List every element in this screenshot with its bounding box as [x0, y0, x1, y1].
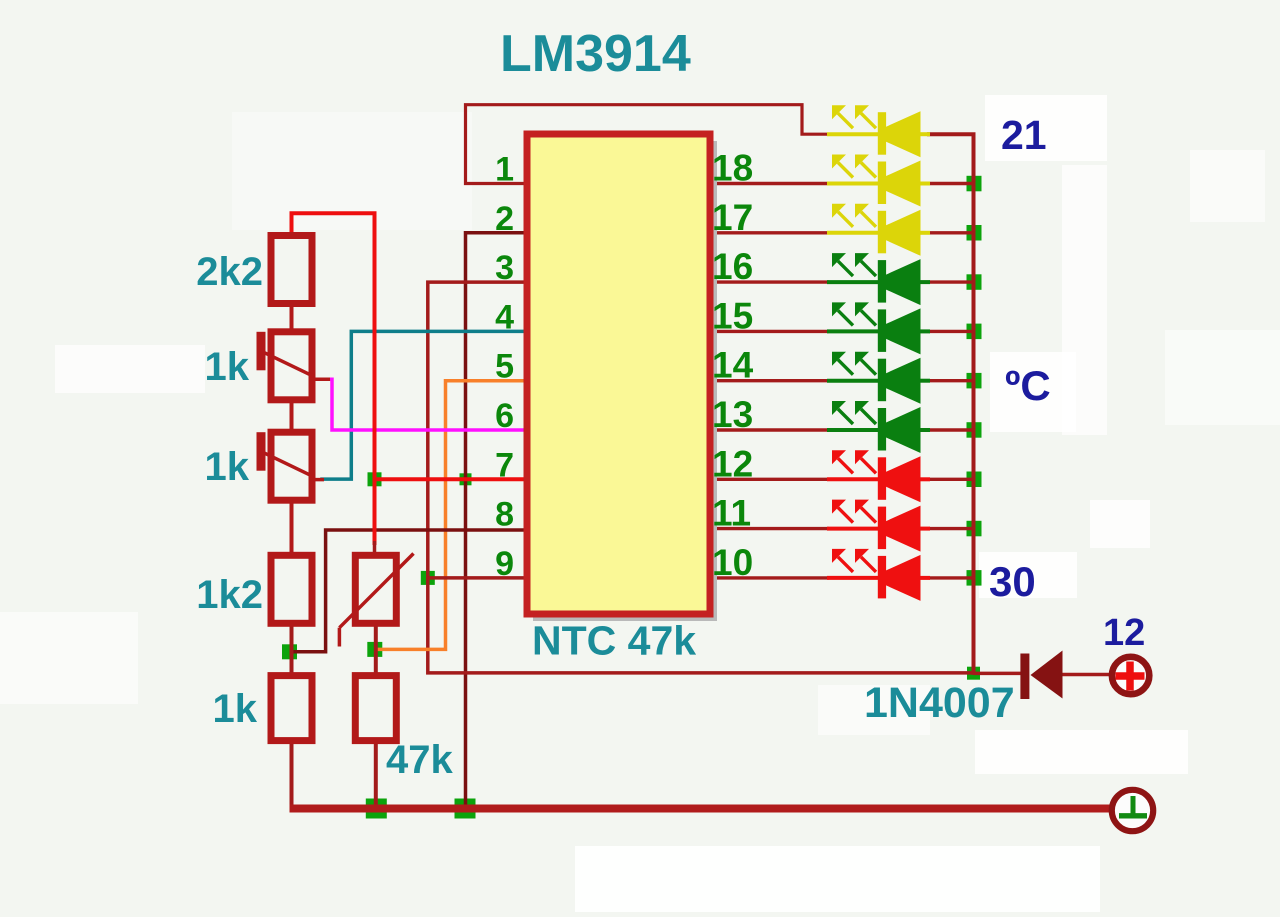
- label R6 value 47k: [386, 738, 453, 782]
- svg-text:47k: 47k: [386, 738, 453, 782]
- pin 7: [495, 446, 514, 484]
- pin 2: [495, 200, 514, 238]
- pin 3: [495, 249, 514, 287]
- label R1 value 2k2: [196, 250, 263, 294]
- node LED bus junction 5: [967, 373, 982, 389]
- ground terminal: [1112, 790, 1153, 831]
- label degrees C: [1005, 362, 1051, 409]
- wire resistor chain R1-R2: [290, 302, 294, 334]
- thermistor NTC 47k: [339, 554, 413, 647]
- wire pin14 to LED D6: [710, 379, 975, 382]
- wire pin9 to V+ column: [428, 576, 527, 580]
- wire pin3 to V+ rail: [428, 282, 974, 673]
- label R4 value 1k2: [196, 573, 263, 617]
- node pin7/pin2 junction: [460, 473, 472, 485]
- wire pin7 reference: [375, 477, 528, 481]
- svg-text:1k2: 1k2: [196, 573, 263, 617]
- wire pin13 to LED D7: [710, 428, 975, 431]
- LED D3: [827, 204, 930, 256]
- pin 14: [712, 345, 754, 386]
- pin 4: [495, 298, 514, 336]
- svg-text:LM3914: LM3914: [500, 25, 691, 83]
- potentiometer R3 1k: [257, 432, 325, 500]
- node LED bus junction 4: [967, 324, 982, 340]
- node R4 bottom junction: [282, 644, 297, 659]
- label R2 value 1k: [205, 345, 250, 389]
- wire pin18 to LED D2: [710, 182, 975, 185]
- +12V supply terminal: [1112, 657, 1149, 694]
- svg-text:1k: 1k: [205, 445, 250, 489]
- LED D10: [827, 549, 930, 601]
- svg-text:16: 16: [712, 246, 753, 287]
- svg-text:1: 1: [495, 151, 514, 189]
- svg-text:10: 10: [712, 542, 753, 583]
- op-amp U1 LM3914 IC body: [527, 134, 717, 621]
- ground bus: [290, 805, 1111, 813]
- svg-text:13: 13: [712, 394, 753, 435]
- svg-text:4: 4: [495, 298, 514, 336]
- pin 13: [712, 394, 753, 435]
- svg-text:1k: 1k: [213, 687, 258, 731]
- svg-text:17: 17: [712, 197, 753, 238]
- svg-text:9: 9: [495, 545, 514, 583]
- svg-text:15: 15: [712, 295, 753, 336]
- resistor R5 1k: [271, 676, 312, 741]
- node LED bus junction 6: [967, 422, 982, 438]
- LED D1: [827, 105, 930, 157]
- wire pin15 to LED D5: [710, 330, 975, 333]
- svg-text:7: 7: [495, 446, 514, 484]
- label R5 value 1k: [213, 687, 258, 731]
- node LED bus junction 2: [967, 225, 982, 241]
- node LED bus junction 9: [967, 570, 982, 586]
- wire pin8 to R4 bottom node: [293, 530, 527, 652]
- resistor R6 47k: [355, 676, 396, 741]
- LED D8: [827, 450, 930, 502]
- label 1N4007: [864, 679, 1015, 727]
- node LED bus junction 1: [967, 176, 982, 192]
- node ground bus junction A: [366, 799, 387, 819]
- wire pin12 to LED D8: [710, 478, 975, 481]
- label 12 (volts): [1103, 612, 1145, 654]
- svg-text:6: 6: [495, 397, 514, 435]
- svg-text:14: 14: [712, 345, 754, 386]
- wire pin11 to LED D9: [710, 527, 975, 530]
- pin 15: [712, 295, 753, 336]
- svg-text:2: 2: [495, 200, 514, 238]
- pin 1: [495, 151, 514, 189]
- svg-text:ºC: ºC: [1005, 362, 1051, 409]
- svg-text:12: 12: [1103, 612, 1145, 654]
- node LED bus junction 8: [967, 521, 982, 537]
- pin 6: [495, 397, 514, 435]
- wire R4 bottom to R5 top: [290, 622, 294, 677]
- pin 16: [712, 246, 753, 287]
- svg-text:1k: 1k: [205, 345, 250, 389]
- pin 17: [712, 197, 753, 238]
- LED D6: [827, 352, 930, 404]
- svg-text:1N4007: 1N4007: [864, 679, 1015, 727]
- wire pin6 to upper potentiometer wiper (magenta): [326, 379, 527, 430]
- svg-text:11: 11: [712, 493, 751, 534]
- svg-text:8: 8: [495, 496, 514, 534]
- label NTC 47k: [532, 618, 696, 664]
- wire pin10 to LED D10: [710, 576, 975, 579]
- wire pin5 to NTC bottom node (orange): [378, 381, 527, 650]
- LED D5: [827, 302, 930, 354]
- wire resistor chain R3-R4: [290, 497, 294, 557]
- diode D11 1N4007: [1020, 651, 1062, 700]
- svg-text:21: 21: [1001, 112, 1047, 158]
- svg-text:12: 12: [712, 443, 753, 484]
- wire resistor chain R2-R3: [290, 398, 294, 434]
- pin 5: [495, 348, 514, 386]
- svg-text:18: 18: [712, 148, 753, 189]
- node LED bus junction 3: [967, 274, 982, 290]
- pin 11: [712, 493, 751, 534]
- wire pin1 to top LED loop: [466, 105, 830, 184]
- pin 9: [495, 545, 514, 583]
- LED D7: [827, 401, 930, 453]
- pin 12: [712, 443, 753, 484]
- wire 47k bottom to ground bus: [374, 741, 378, 809]
- node LED bus junction 7: [967, 472, 982, 488]
- node ground bus junction B: [455, 799, 476, 819]
- svg-text:NTC 47k: NTC 47k: [532, 618, 696, 664]
- node NTC bottom junction: [367, 642, 382, 657]
- resistor R4 1k2: [271, 555, 312, 623]
- label 30 (degrees): [989, 558, 1036, 605]
- wire 2k2 top to NTC top (bright red): [292, 213, 375, 557]
- label LM3914 title: [500, 25, 691, 83]
- pin 10: [712, 542, 753, 583]
- wire pin16 to LED D4: [710, 280, 975, 283]
- svg-text:2k2: 2k2: [196, 250, 263, 294]
- svg-text:5: 5: [495, 348, 514, 386]
- pin 18: [712, 148, 753, 189]
- LED anode bus: [929, 134, 974, 673]
- wire V+ rail to diode and +12V terminal: [974, 673, 1111, 674]
- wire pin17 to LED D3: [710, 231, 975, 234]
- resistor R1 2k2: [271, 236, 312, 304]
- wire pin4 to lower potentiometer wiper (teal): [322, 331, 527, 479]
- node pin7/reference junction: [368, 472, 382, 486]
- wire NTC bottom to 47k top: [374, 622, 378, 677]
- label R3 value 1k: [205, 445, 250, 489]
- wire R5 bottom to ground bus: [290, 741, 294, 809]
- potentiometer R2 1k: [257, 332, 331, 400]
- node V+/diode junction: [967, 667, 980, 680]
- LED D2: [827, 155, 930, 207]
- svg-text:30: 30: [989, 558, 1036, 605]
- svg-text:3: 3: [495, 249, 514, 287]
- wire pin2 to ground: [466, 233, 528, 809]
- node pin9 junction: [421, 571, 435, 585]
- pin 8: [495, 496, 514, 534]
- label 21 (degrees): [1001, 112, 1047, 158]
- LED D9: [827, 500, 930, 552]
- LED D4: [827, 253, 930, 305]
